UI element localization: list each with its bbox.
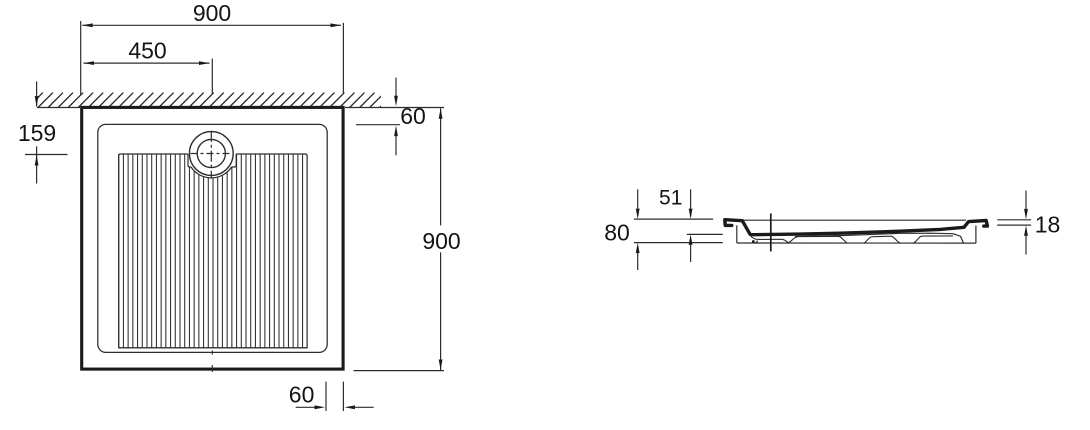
svg-text:18: 18 bbox=[1035, 212, 1061, 238]
svg-text:60: 60 bbox=[400, 103, 426, 129]
svg-text:900: 900 bbox=[422, 228, 460, 254]
svg-text:450: 450 bbox=[128, 38, 166, 64]
svg-text:80: 80 bbox=[604, 220, 630, 246]
svg-text:60: 60 bbox=[289, 382, 315, 408]
svg-text:159: 159 bbox=[18, 120, 56, 146]
svg-text:900: 900 bbox=[193, 0, 231, 26]
svg-text:51: 51 bbox=[659, 187, 682, 210]
